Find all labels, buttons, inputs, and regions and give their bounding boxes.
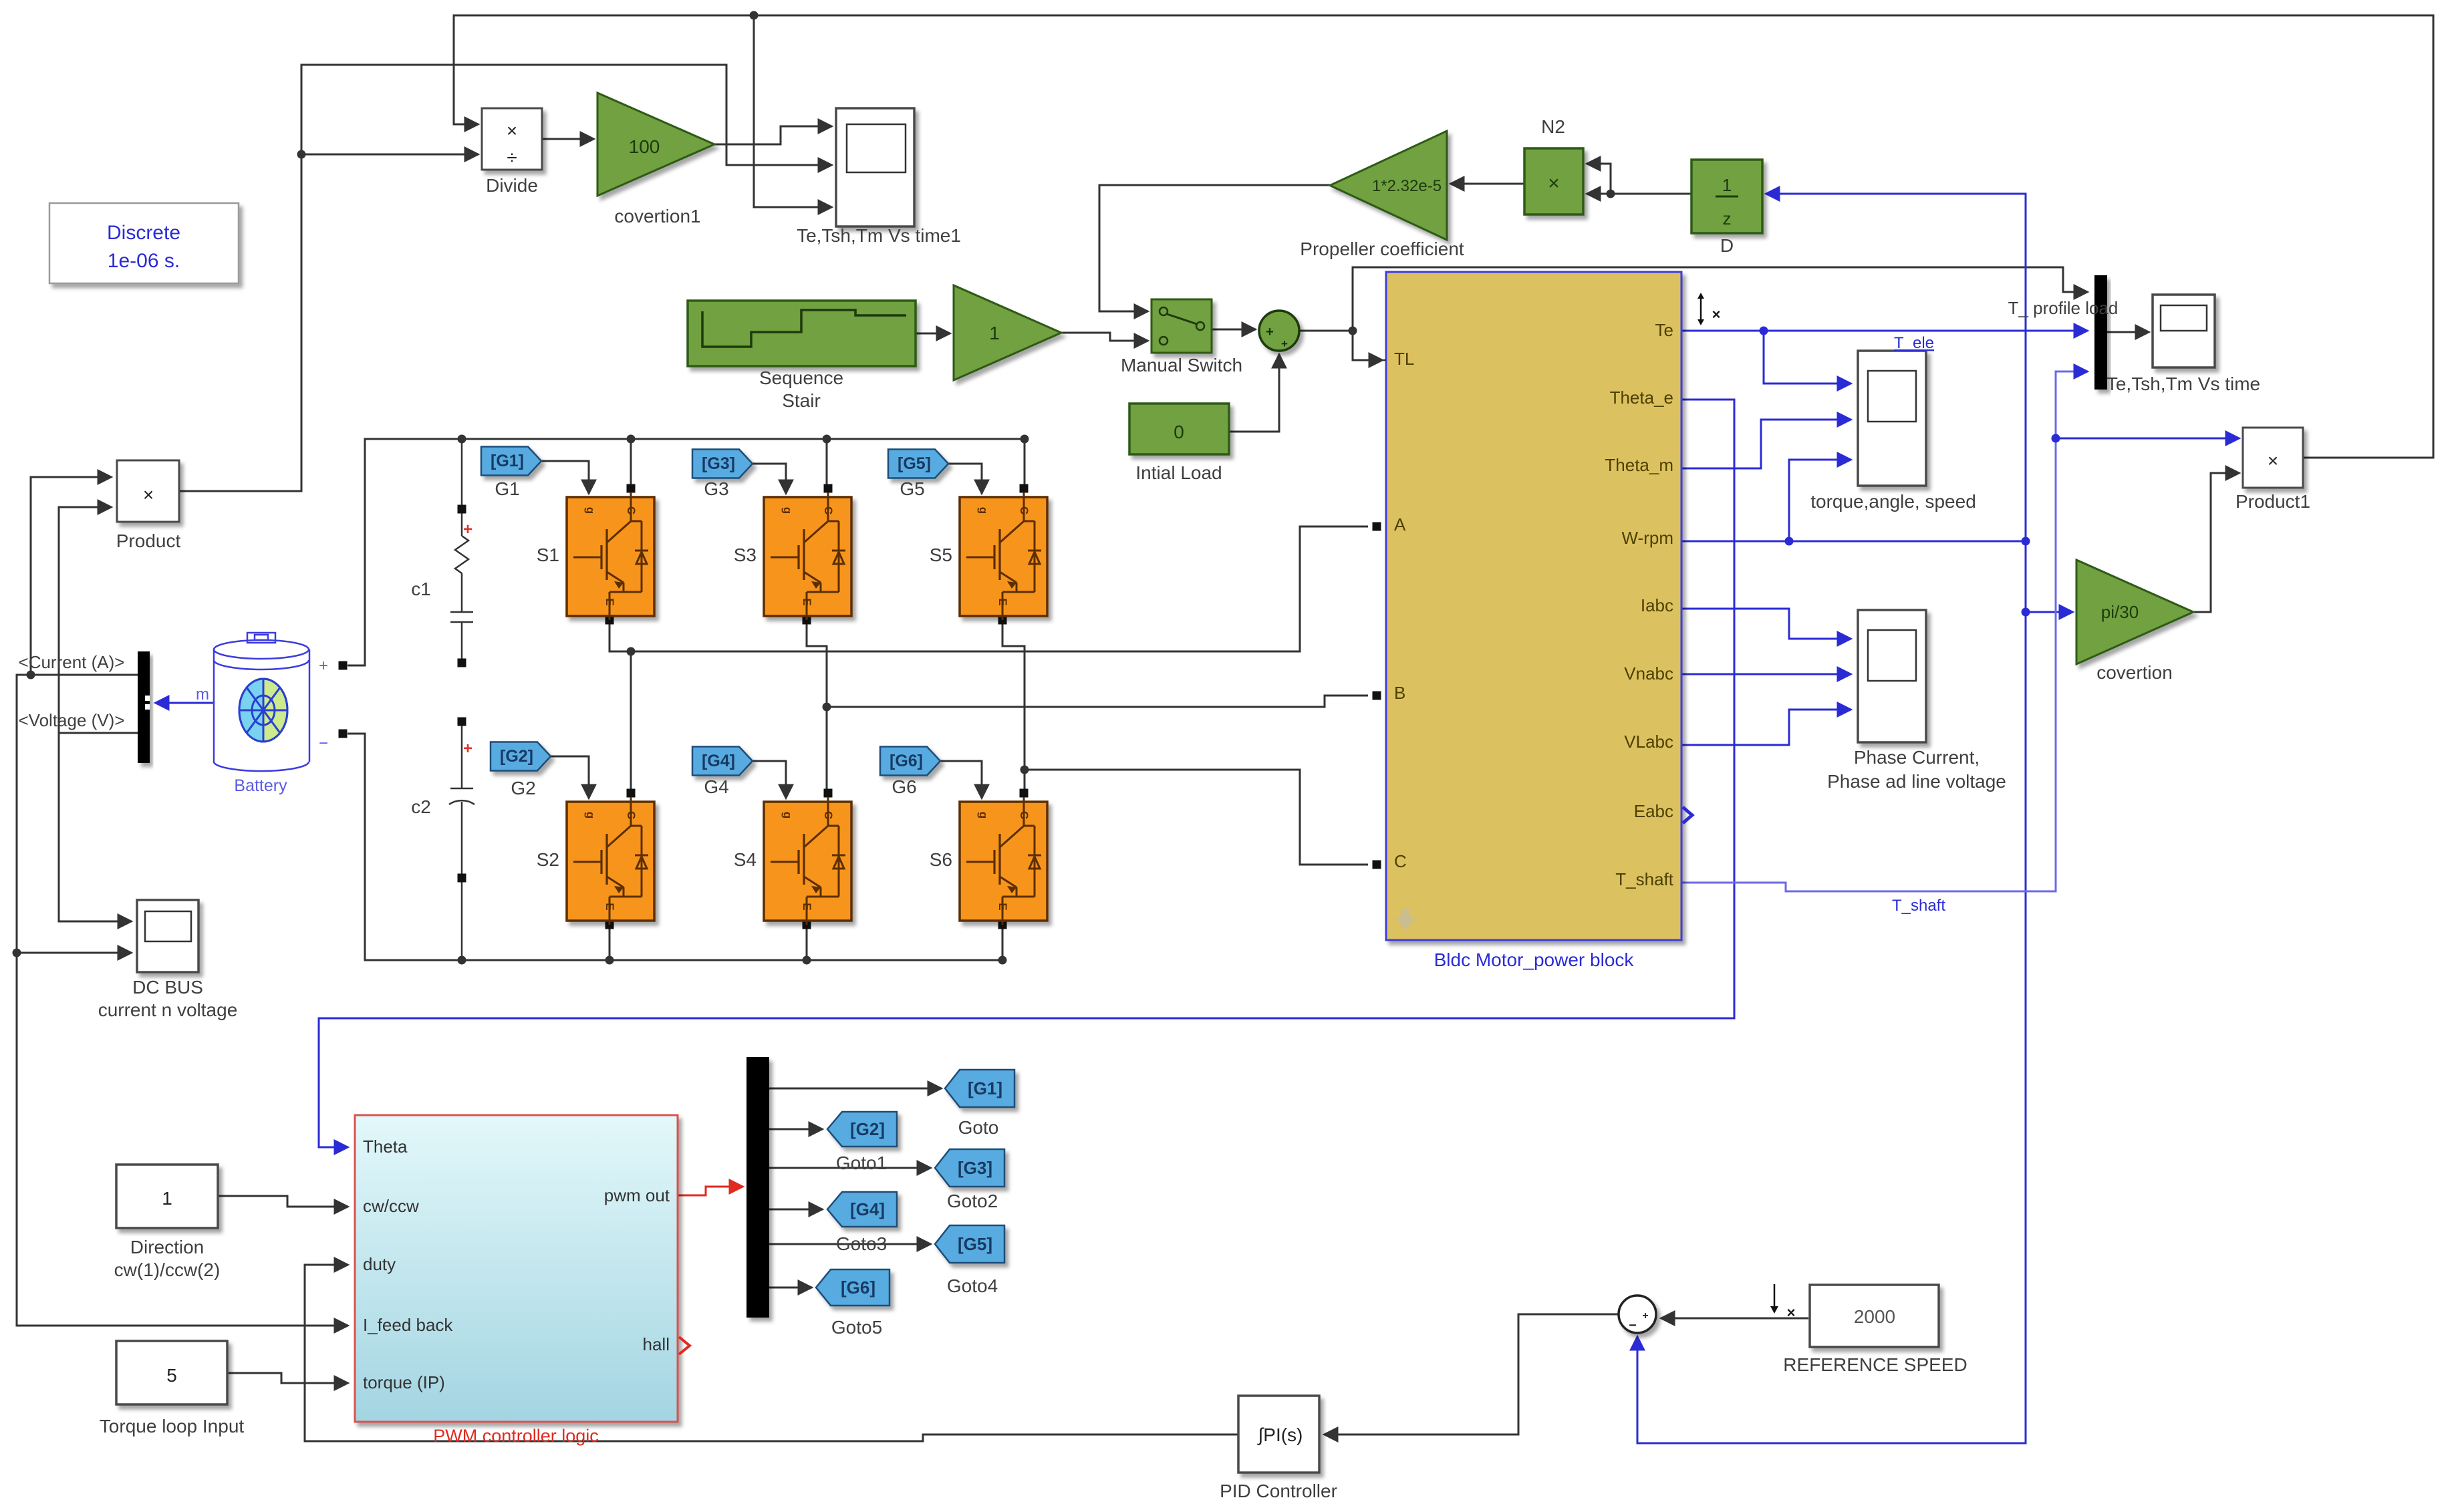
svg-text:S2: S2	[537, 849, 559, 870]
constant REFERENCE SPEED (2000)	[1810, 1285, 1939, 1347]
svg-text:hall: hall	[643, 1334, 670, 1354]
wire gate G1	[541, 461, 589, 494]
svg-text:+: +	[463, 740, 472, 758]
wire pi/30 out to Product1 in2	[2193, 473, 2239, 612]
snubber branch c2	[449, 726, 474, 960]
annotation drop cursor near REFERENCE SPEED	[1774, 1284, 1776, 1308]
svg-text:[G1]: [G1]	[968, 1078, 1002, 1098]
wire Direction to cw/ccw	[218, 1196, 348, 1207]
svg-text:+: +	[1281, 337, 1288, 350]
wire Vnabc to phase scope in2	[1681, 673, 1851, 675]
goto tag [G4]	[827, 1192, 897, 1227]
svg-text:[G5]: [G5]	[958, 1234, 992, 1254]
sum junction (load torque)	[1259, 311, 1299, 351]
goto tag [G5]	[935, 1225, 1004, 1263]
svg-text:+: +	[1642, 1310, 1648, 1322]
wire T_shaft to mux in3 and Product1 in1	[1681, 371, 2088, 891]
svg-text:Te,Tsh,Tm Vs time: Te,Tsh,Tm Vs time	[2106, 373, 2260, 394]
IGBT switch S6	[960, 789, 1047, 929]
constant Direction (1)	[116, 1165, 218, 1228]
svg-text:[G2]: [G2]	[500, 747, 533, 766]
svg-text:Torque loop Input: Torque loop Input	[100, 1416, 245, 1437]
goto tag [G3]	[935, 1149, 1004, 1187]
wire Torque loop Input to torque (IP)	[227, 1373, 348, 1383]
svg-text:PWM controller logic: PWM controller logic	[433, 1426, 599, 1446]
svg-text:REFERENCE SPEED: REFERENCE SPEED	[1783, 1354, 1967, 1375]
svg-text:Theta_e: Theta_e	[1610, 388, 1673, 408]
svg-text:Te: Te	[1655, 320, 1673, 340]
svg-text:z: z	[1723, 208, 1732, 229]
svg-text:Phase ad line voltage: Phase ad line voltage	[1827, 771, 2006, 792]
svg-text:100: 100	[629, 136, 660, 157]
svg-text:∫PI(s): ∫PI(s)	[1257, 1424, 1303, 1445]
subsystem PWM controller logic	[355, 1115, 678, 1422]
product N2	[1524, 148, 1583, 214]
wire battery plus to DC+ rail	[348, 439, 1025, 665]
svg-text:N2: N2	[1541, 116, 1565, 137]
svg-text:Stair: Stair	[782, 390, 821, 411]
wire N2 out to Propeller coefficient	[1450, 183, 1524, 185]
svg-text:Bldc Motor_power block: Bldc Motor_power block	[1434, 949, 1635, 970]
wire gate G3	[753, 464, 786, 494]
snubber branch c1	[450, 439, 473, 659]
wire Intial Load to Sum	[1229, 354, 1279, 432]
gain covertion (pi/30)	[2076, 560, 2193, 664]
annotation Discrete sample time	[49, 203, 239, 283]
wire PID out to duty	[305, 1265, 1238, 1441]
svg-text:[G3]: [G3]	[958, 1158, 992, 1178]
wire demux outputs to goto tags	[769, 1088, 942, 1090]
wire Te output to mux and torque scope	[1681, 330, 2088, 332]
wire Product1 output feedback loop (top)	[454, 15, 2433, 458]
product Product1	[2243, 428, 2303, 488]
svg-text:S5: S5	[930, 545, 952, 565]
svg-text:Goto5: Goto5	[831, 1317, 882, 1338]
wire current (A) net	[17, 675, 348, 1326]
svg-text:TL: TL	[1394, 349, 1414, 369]
svg-text:Manual Switch: Manual Switch	[1121, 355, 1242, 375]
svg-text:Goto4: Goto4	[947, 1275, 998, 1296]
scope DC BUS current n voltage	[137, 900, 198, 972]
svg-text:1: 1	[162, 1188, 172, 1209]
svg-text:T_shaft: T_shaft	[1615, 869, 1673, 889]
svg-text:Discrete: Discrete	[107, 222, 180, 244]
from tag G2	[491, 742, 551, 771]
svg-text:torque,angle, speed: torque,angle, speed	[1810, 491, 1976, 512]
wire battery m to bus selector	[155, 702, 214, 704]
svg-text:W-rpm: W-rpm	[1621, 528, 1673, 548]
svg-text:G5: G5	[900, 478, 924, 499]
wire Sequence Stair to gain 1	[916, 333, 950, 335]
controller PID (PI(s))	[1238, 1396, 1319, 1473]
svg-text:m: m	[196, 686, 209, 704]
svg-text:Propeller coefficient: Propeller coefficient	[1300, 239, 1464, 259]
svg-text:G2: G2	[511, 778, 535, 798]
wire Theta_e feedback to PWM Theta	[319, 400, 1734, 1147]
svg-text:G1: G1	[495, 478, 519, 499]
svg-text:Iabc: Iabc	[1641, 595, 1673, 615]
manual switch Manual Switch	[1151, 299, 1212, 353]
scope Te,Tsh,Tm Vs time1	[836, 108, 914, 226]
svg-text:×: ×	[1787, 1304, 1796, 1321]
wire Manual Switch out to Sum	[1212, 329, 1256, 331]
svg-text:g: g	[781, 507, 794, 514]
svg-text:[G4]: [G4]	[702, 752, 735, 770]
wire REFERENCE SPEED to sum	[1661, 1318, 1808, 1320]
svg-text:g: g	[977, 812, 990, 818]
svg-text:[G6]: [G6]	[841, 1277, 875, 1298]
svg-text:5: 5	[166, 1365, 177, 1386]
svg-text:T_ profile load: T_ profile load	[2008, 298, 2119, 318]
constant Intial Load (0)	[1129, 404, 1229, 454]
svg-text:[G1]: [G1]	[491, 452, 524, 470]
demux pwm bar	[746, 1057, 769, 1318]
svg-text:G6: G6	[892, 776, 916, 797]
wire D out to N2 inputs	[1587, 193, 1691, 195]
svg-text:1*2.32e-5: 1*2.32e-5	[1372, 177, 1442, 195]
svg-text:[G3]: [G3]	[702, 454, 735, 473]
IGBT switch S1	[567, 484, 654, 625]
wire gain 1 out to Manual Switch in2	[1061, 333, 1148, 341]
svg-text:[G6]: [G6]	[890, 752, 923, 770]
wire gate G6	[940, 761, 982, 798]
sum speed error	[1619, 1296, 1656, 1333]
gain Propeller coefficient	[1330, 131, 1447, 240]
svg-text:g: g	[977, 507, 990, 514]
svg-text:×: ×	[1548, 172, 1560, 194]
svg-text:Direction: Direction	[130, 1237, 204, 1257]
svg-text:S6: S6	[930, 849, 952, 870]
product Product (battery P)	[117, 460, 179, 522]
wire Product output to Divide and scope1 in2	[179, 65, 832, 491]
svg-text:g: g	[781, 812, 794, 818]
svg-text:Te,Tsh,Tm Vs time1: Te,Tsh,Tm Vs time1	[797, 225, 961, 246]
scope torque,angle, speed	[1858, 351, 1926, 486]
svg-text:cw(1)/ccw(2): cw(1)/ccw(2)	[114, 1259, 221, 1280]
gain covertion1 (100)	[597, 93, 714, 196]
svg-text:×: ×	[507, 120, 517, 141]
svg-text:−: −	[1629, 1318, 1637, 1333]
svg-text:duty: duty	[363, 1254, 396, 1274]
svg-text:Product: Product	[116, 531, 181, 551]
wire covertion1 out to scope1 in1	[714, 126, 832, 144]
constant Torque loop Input (5)	[116, 1341, 227, 1404]
IGBT switch S5	[960, 484, 1047, 625]
svg-text:g: g	[584, 812, 597, 818]
wire phase C net	[1002, 624, 1025, 793]
svg-text:1: 1	[989, 323, 1000, 343]
svg-text:Divide: Divide	[486, 175, 538, 196]
wire Iabc to phase scope in1	[1681, 609, 1851, 639]
svg-text:VLabc: VLabc	[1624, 732, 1673, 752]
svg-text:current n voltage: current n voltage	[98, 1000, 238, 1020]
wire W-rpm distribution	[1681, 541, 2026, 543]
wire mux out to scope Te,Tsh,Tm Vs time	[2107, 331, 2149, 333]
svg-text:Vnabc: Vnabc	[1624, 663, 1673, 684]
svg-text:T_shaft: T_shaft	[1892, 897, 1945, 915]
svg-text:S1: S1	[537, 545, 559, 565]
svg-text:DC BUS: DC BUS	[132, 977, 203, 998]
svg-text:×: ×	[1712, 306, 1721, 323]
subsystem Bldc Motor_power block	[1386, 272, 1681, 940]
svg-text:c2: c2	[411, 796, 431, 817]
svg-text:2000: 2000	[1854, 1306, 1895, 1327]
wire gate G5	[948, 464, 982, 494]
svg-text:Battery: Battery	[234, 776, 287, 795]
wire speed sum to PID	[1324, 1314, 1619, 1434]
wire branch to scope1 in3	[754, 15, 832, 207]
svg-text:I_feed back: I_feed back	[363, 1315, 453, 1335]
svg-text:S4: S4	[734, 849, 757, 870]
svg-text:1e-06 s.: 1e-06 s.	[108, 250, 180, 272]
svg-text:Goto1: Goto1	[836, 1153, 887, 1173]
svg-text:1: 1	[1722, 175, 1732, 195]
from tag G4	[692, 747, 753, 776]
mux T profile	[2094, 275, 2107, 390]
wire gate G4	[753, 761, 786, 798]
gain 1	[954, 285, 1061, 380]
svg-text:torque (IP): torque (IP)	[363, 1372, 445, 1392]
svg-text:Intial Load: Intial Load	[1135, 462, 1222, 483]
svg-text:C: C	[1394, 851, 1407, 871]
svg-text:Goto: Goto	[958, 1117, 999, 1138]
svg-text:+: +	[319, 657, 328, 675]
battery Battery	[214, 633, 309, 771]
svg-text:B: B	[1394, 683, 1405, 703]
svg-text:c1: c1	[411, 579, 431, 599]
scope Phase Current	[1858, 610, 1926, 742]
svg-text:pi/30: pi/30	[2101, 602, 2139, 622]
svg-text:+: +	[1266, 325, 1274, 339]
svg-text:Theta: Theta	[363, 1137, 408, 1157]
svg-text:cw/ccw: cw/ccw	[363, 1196, 419, 1216]
svg-text:S3: S3	[734, 545, 757, 565]
svg-text:covertion1: covertion1	[614, 206, 700, 226]
goto tag [G2]	[827, 1112, 897, 1147]
svg-text:×: ×	[2268, 450, 2278, 471]
IGBT switch S2	[567, 789, 654, 929]
bus selector bar	[138, 651, 150, 763]
svg-text:pwm out: pwm out	[604, 1185, 670, 1205]
wire Theta_m to torque scope in2	[1681, 420, 1851, 468]
wire battery minus to DC- rail	[348, 734, 1002, 960]
wire gate G2	[551, 756, 589, 798]
divide block Divide	[482, 108, 542, 170]
wire Sum out to TL and T-profile mux	[1299, 330, 1353, 332]
goto tag [G1]	[945, 1070, 1014, 1107]
svg-text:[G5]: [G5]	[898, 454, 931, 473]
scope Te,Tsh,Tm Vs time	[2153, 295, 2215, 367]
svg-text:G3: G3	[704, 478, 728, 499]
wire VLabc to phase scope in3	[1681, 710, 1851, 745]
from tag G1	[481, 447, 541, 476]
svg-text:×: ×	[143, 484, 154, 505]
svg-text:covertion: covertion	[2096, 662, 2173, 683]
annotation resize cursor near Te	[1700, 297, 1702, 321]
wire Propeller coefficient out to Manual Switch in1	[1099, 185, 1330, 311]
svg-text:[G4]: [G4]	[850, 1199, 885, 1219]
svg-text:Sequence: Sequence	[759, 367, 843, 388]
wire phase A net	[609, 624, 631, 651]
svg-text:Goto3: Goto3	[836, 1233, 887, 1254]
wire phase B net	[807, 624, 827, 793]
goto tag [G6]	[816, 1269, 890, 1306]
svg-text:[G2]: [G2]	[850, 1119, 885, 1139]
svg-text:D: D	[1720, 235, 1734, 256]
svg-text:<Voltage (V)>: <Voltage (V)>	[19, 710, 125, 730]
svg-text:0: 0	[1174, 422, 1184, 442]
svg-text:Phase Current,: Phase Current,	[1854, 747, 1980, 768]
source Sequence Stair	[688, 301, 916, 366]
wire pwm out (red) to demux	[678, 1187, 743, 1195]
from tag G6	[880, 747, 940, 776]
svg-text:Goto2: Goto2	[947, 1191, 998, 1211]
svg-text:Theta_m: Theta_m	[1605, 455, 1673, 475]
svg-text:+: +	[463, 520, 472, 539]
svg-text:÷: ÷	[507, 147, 517, 168]
IGBT switch S4	[764, 789, 851, 929]
from tag G3	[692, 450, 753, 478]
svg-text:PID Controller: PID Controller	[1220, 1481, 1337, 1501]
svg-text:g: g	[584, 507, 597, 514]
svg-text:<Current (A)>: <Current (A)>	[19, 652, 125, 672]
svg-text:T_ele: T_ele	[1894, 334, 1934, 352]
svg-text:A: A	[1394, 514, 1406, 535]
svg-text:Eabc: Eabc	[1634, 801, 1673, 821]
svg-text:−: −	[319, 734, 328, 752]
unit delay D (1/z)	[1691, 160, 1762, 233]
svg-text:G4: G4	[704, 776, 728, 797]
IGBT switch S3	[764, 484, 851, 625]
wire Divide out to covertion1	[542, 138, 594, 140]
wire voltage (V) net	[59, 507, 138, 733]
svg-text:Product1: Product1	[2235, 491, 2310, 512]
from tag G5	[888, 450, 948, 478]
